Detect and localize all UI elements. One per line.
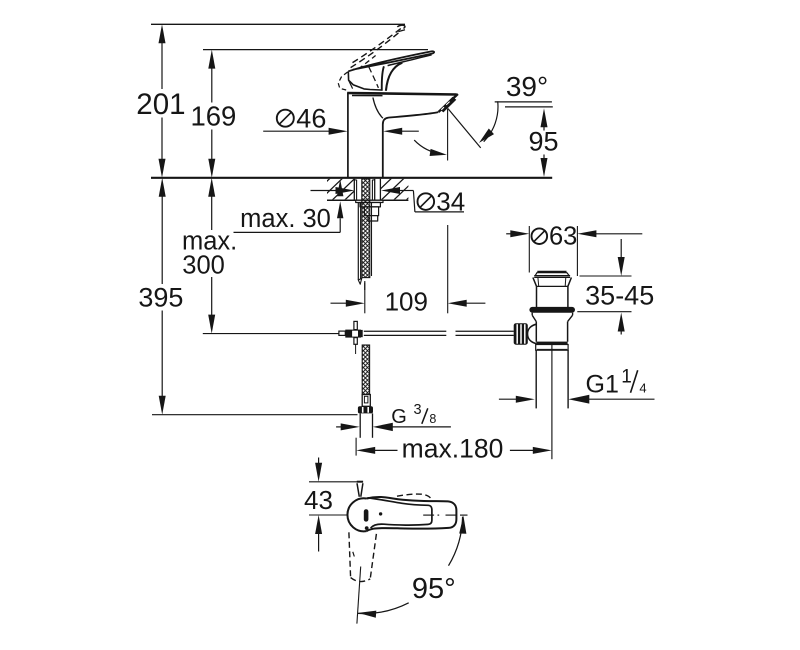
dimension Ø34 of mounting hole with leader [311, 187, 466, 217]
dimension Ø46 of faucet base [263, 103, 419, 134]
counter underside line [327, 199, 408, 201]
threaded shank hole walls [354, 179, 380, 201]
wire: 395 bottom reference line [152, 414, 358, 416]
svg-text:95°: 95° [412, 573, 456, 605]
wire: horizontal waste pipe right segment [456, 331, 514, 335]
dimension G 3/8 thread [336, 402, 451, 431]
drain tailpipe [536, 350, 568, 408]
countertop surface line [151, 177, 552, 179]
wire: horizontal waste pipe left segment [364, 331, 447, 335]
drain side port and knurled knob [514, 323, 537, 345]
pop-up rod screw fitting [339, 321, 363, 354]
angle 39° water stream [448, 71, 548, 148]
lower supply hose braided [362, 345, 369, 395]
wire: aerator axis extension line upper [447, 109, 449, 161]
lever handle solid position [348, 51, 434, 91]
spout end face and aerator [439, 94, 458, 112]
svg-text:169: 169 [190, 101, 236, 132]
svg-text:34: 34 [436, 187, 465, 217]
wire: aerator axis extension line lower [447, 225, 449, 290]
svg-text:43: 43 [304, 485, 333, 515]
svg-text:39°: 39° [506, 71, 548, 102]
hose end connector [362, 395, 370, 407]
wire: 201 top reference line [151, 23, 405, 25]
svg-text:G: G [391, 406, 407, 428]
svg-text:4: 4 [639, 380, 646, 395]
svg-text:G1: G1 [586, 370, 619, 398]
dimension 395 vertical [138, 178, 183, 415]
faucet body front view [347, 93, 456, 178]
wire: faucet axis extension to 109 [364, 283, 366, 291]
G3/8 union nut [358, 406, 373, 413]
dimension max. 300 vertical [182, 178, 237, 334]
top view centreline dash-dot [423, 514, 467, 516]
svg-text:1: 1 [621, 366, 632, 387]
svg-text:8: 8 [429, 412, 436, 426]
dimension Ø63 drain flange [506, 223, 642, 276]
wire: drain centre rod / max180 extension [551, 345, 553, 459]
lever handle raised position dashed [338, 25, 405, 90]
svg-text:63: 63 [549, 223, 577, 251]
svg-text:max.180: max.180 [402, 433, 504, 463]
supply tailpipe below nut [360, 413, 372, 437]
svg-text:201: 201 [136, 88, 185, 121]
wire: rod line from max300 to fitting [203, 333, 339, 335]
wire: 169 reference line at solid lever top [203, 49, 428, 51]
svg-text:395: 395 [138, 282, 183, 312]
dimension 95 spout height [495, 102, 559, 177]
dimension 35-45 installation depth [577, 239, 654, 335]
flexible connection hoses braided [358, 179, 371, 284]
dimension max.180 [356, 433, 552, 463]
svg-text:300: 300 [182, 252, 225, 280]
spout swivel arc with arrow [414, 140, 447, 156]
svg-text:35-45: 35-45 [585, 280, 654, 310]
svg-text:max. 30: max. 30 [240, 205, 331, 233]
svg-text:109: 109 [385, 286, 428, 316]
dimension 109 spout reach [331, 281, 486, 316]
svg-text:46: 46 [296, 103, 326, 133]
dimension max. 30 with leader [234, 179, 344, 233]
dimension 201 vertical [136, 24, 185, 178]
dimension 169 vertical [190, 50, 236, 178]
dimension G1 1/4 drain thread [499, 366, 655, 403]
angle 95° handle swivel arc [358, 516, 466, 618]
pop-up waste drain body [529, 272, 575, 350]
dimension 43 top view width [304, 458, 361, 552]
svg-text:95: 95 [528, 127, 558, 157]
faucet top view body [347, 482, 456, 532]
spout dashed position top view [349, 532, 377, 581]
wire: spout axis extension top view [357, 567, 361, 624]
mounting washer and nut steps [356, 200, 383, 221]
svg-text:3: 3 [414, 402, 422, 418]
